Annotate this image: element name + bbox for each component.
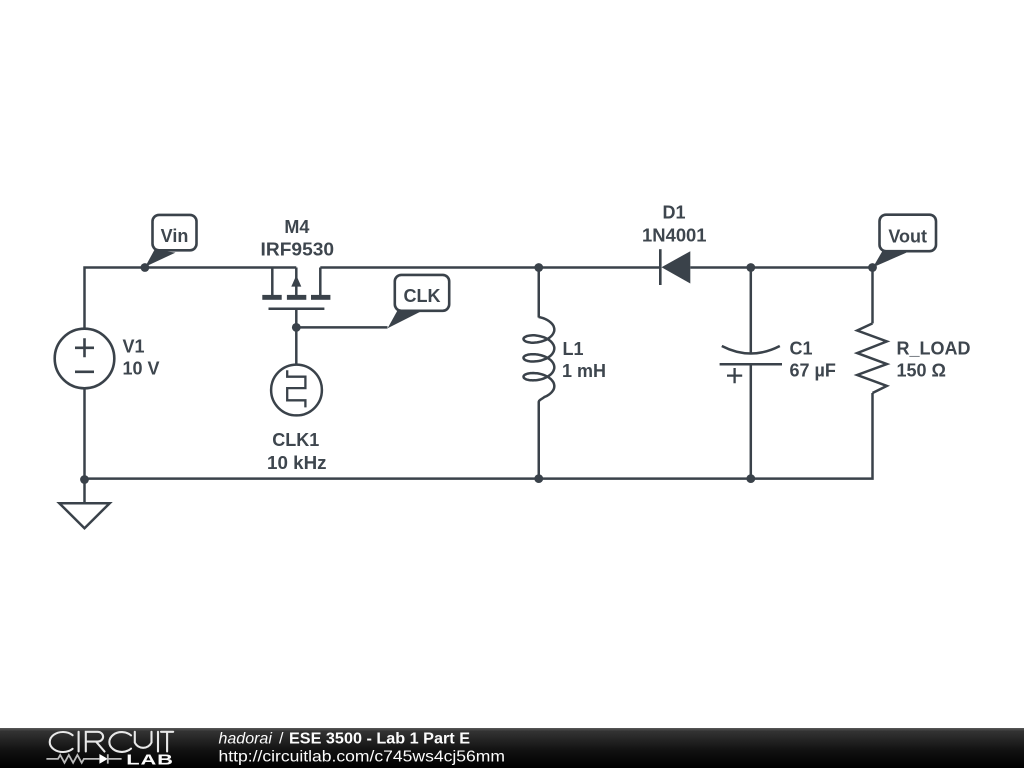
svg-text:L1: L1 <box>563 339 584 359</box>
svg-text:IRF9530: IRF9530 <box>261 240 335 260</box>
wire: Vout node down to R_LOAD <box>871 268 874 324</box>
svg-text:Vout: Vout <box>888 226 927 246</box>
wire: M4 gate stub <box>295 309 298 327</box>
wire: top rail to L1 top <box>538 268 541 318</box>
wire: ground stub <box>83 479 86 503</box>
svg-text:V1: V1 <box>123 337 145 357</box>
svg-text:ESE 3500 - Lab 1 Part E: ESE 3500 - Lab 1 Part E <box>289 731 470 748</box>
svg-text:10 kHz: 10 kHz <box>267 453 327 473</box>
svg-text:CLK1: CLK1 <box>272 430 319 450</box>
node: gate junction <box>292 323 301 332</box>
svg-text:hadorai: hadorai <box>219 731 273 748</box>
node flag Vout <box>873 215 936 268</box>
svg-text:R_LOAD: R_LOAD <box>897 339 971 359</box>
node: C1 bottom junction dot <box>746 474 755 483</box>
resistor R_LOAD <box>857 323 887 393</box>
voltage source V1 <box>55 329 115 389</box>
node: ground junction dot <box>80 475 89 484</box>
wire: gate node down to CLK1 source <box>295 327 298 364</box>
wire: bottom rail from R_LOAD to ground node <box>85 393 873 479</box>
svg-text:http://circuitlab.com/c745ws4c: http://circuitlab.com/c745ws4cj56mm <box>219 749 506 766</box>
value label D1 1N4001 <box>642 202 707 245</box>
svg-text:150 Ω: 150 Ω <box>897 361 946 381</box>
svg-text:1 mH: 1 mH <box>562 361 606 381</box>
diode D1 <box>660 249 690 285</box>
svg-text:LAB: LAB <box>126 751 174 767</box>
svg-text:Vin: Vin <box>161 226 189 246</box>
wire: D1 cathode side to node Vout <box>690 266 872 269</box>
wire: top rail to C1 top plate <box>750 268 753 353</box>
svg-text:C1: C1 <box>790 339 813 359</box>
footer bar <box>0 728 1024 768</box>
node: C1 top junction dot <box>746 263 755 272</box>
clock source CLK1 <box>271 365 322 416</box>
svg-text:/: / <box>279 731 284 748</box>
logo CIRCUIT lettering <box>50 732 173 752</box>
ground <box>59 503 109 528</box>
logo resistor-diode glyph and LAB <box>46 751 174 767</box>
wire: M4 drain to D1 anode <box>320 266 659 269</box>
svg-text:67 µF: 67 µF <box>790 361 836 381</box>
node: L1 bottom junction dot <box>534 474 543 483</box>
capacitor C1 (polarized) <box>720 346 782 383</box>
node flag CLK <box>388 275 450 328</box>
wire: C1 bottom plate to bottom rail <box>750 364 753 478</box>
wire: left rail from V1 top to node Vin to M4 source <box>85 268 297 330</box>
inductor L1 <box>524 317 555 402</box>
value label M4 IRF9530 <box>261 217 335 260</box>
svg-text:10 V: 10 V <box>123 359 160 379</box>
value label L1 1 mH <box>562 339 606 381</box>
node flag Vin <box>145 215 196 267</box>
node: L1 top junction dot <box>534 263 543 272</box>
transistor M4 (PMOS IRF9530) <box>262 268 330 309</box>
node: Vout junction dot <box>868 263 877 272</box>
svg-text:M4: M4 <box>284 217 309 237</box>
value label V1 10 V <box>123 337 160 379</box>
wire: gate node to CLK flag <box>296 326 387 329</box>
wire: L1 bottom to bottom rail <box>538 402 541 479</box>
value label CLK1 10 kHz <box>267 430 327 473</box>
wire: V1 bottom to bottom rail <box>83 388 86 478</box>
footer title text <box>219 731 506 766</box>
svg-text:CLK: CLK <box>404 286 441 306</box>
node: Vin junction dot <box>141 263 150 272</box>
value label C1 67 uF <box>790 339 836 381</box>
svg-text:D1: D1 <box>662 202 685 222</box>
value label R_LOAD 150 Ohm <box>897 339 971 381</box>
svg-text:1N4001: 1N4001 <box>642 225 707 245</box>
